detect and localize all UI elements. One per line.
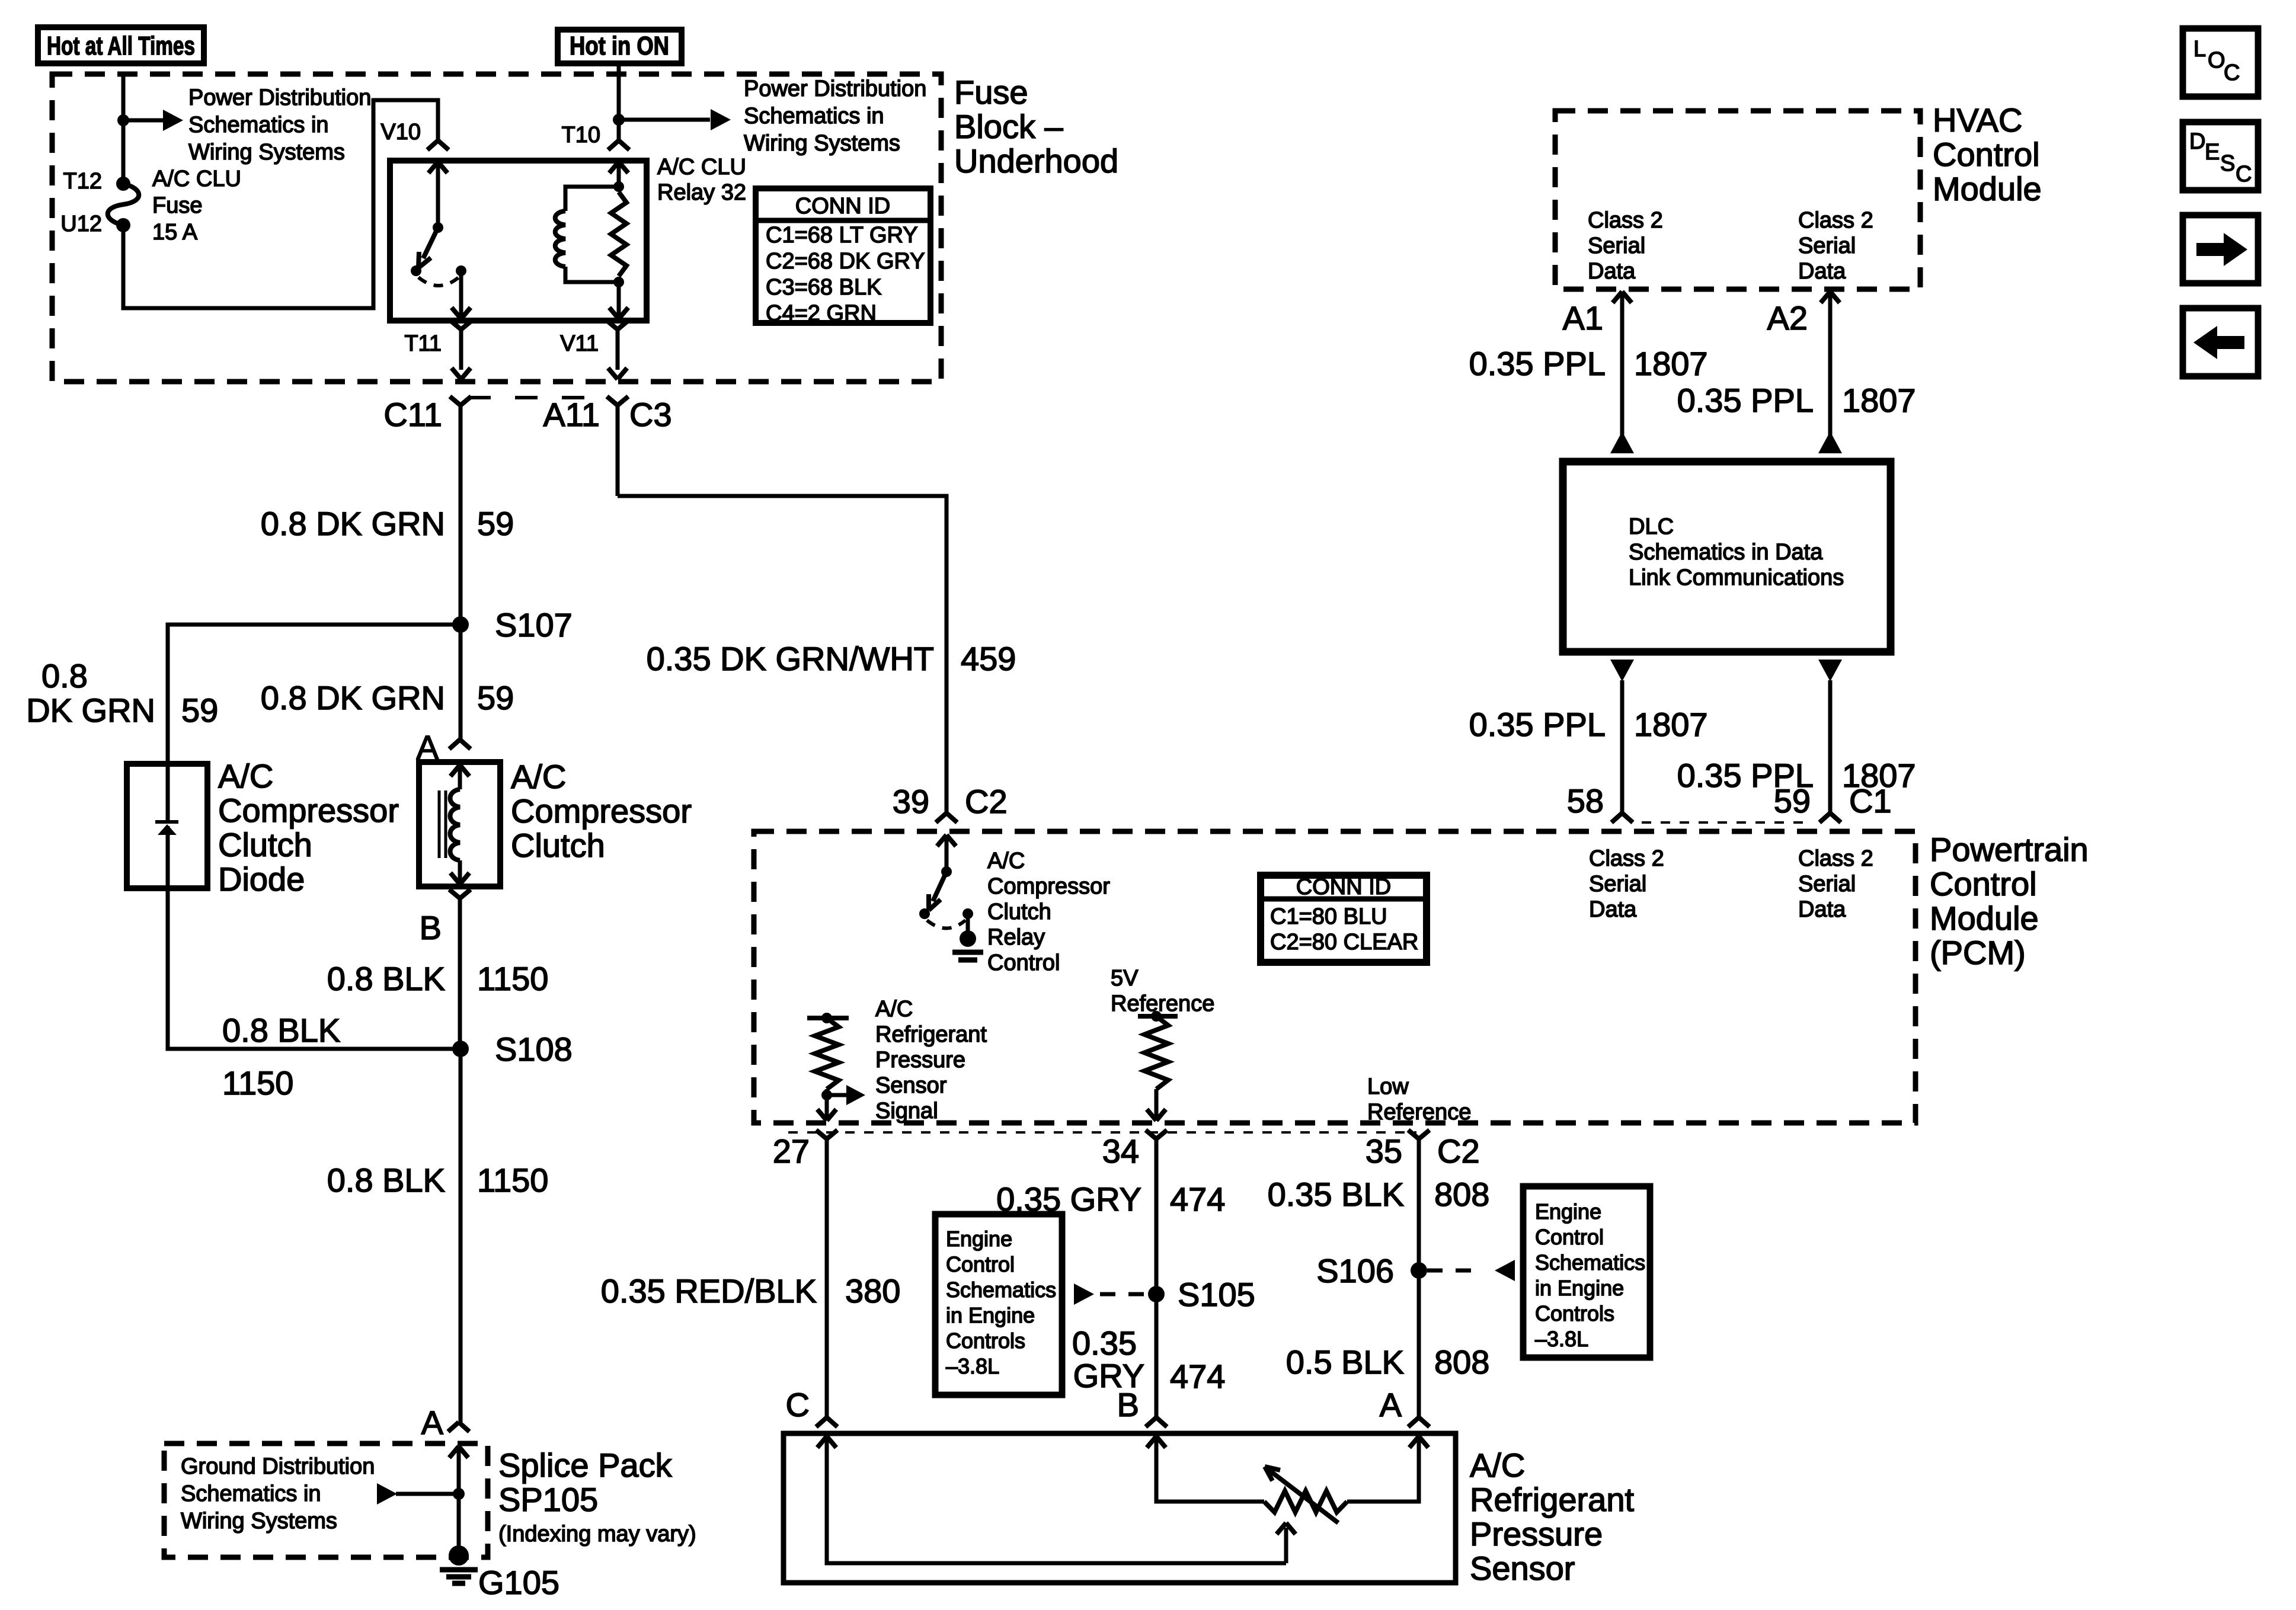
- svg-text:C3: C3: [629, 396, 672, 433]
- svg-text:Schematics in Data: Schematics in Data: [1629, 540, 1823, 565]
- svg-text:Clutch: Clutch: [218, 826, 312, 863]
- svg-text:CONN ID: CONN ID: [1296, 875, 1391, 900]
- svg-text:DLC: DLC: [1629, 514, 1674, 539]
- svg-text:–3.8L: –3.8L: [1535, 1327, 1588, 1351]
- svg-text:A/C CLU: A/C CLU: [152, 167, 241, 191]
- svg-text:C11: C11: [383, 396, 442, 433]
- svg-text:HVAC: HVAC: [1933, 101, 2022, 139]
- svg-text:Module: Module: [1930, 900, 2039, 937]
- svg-text:T11: T11: [404, 331, 442, 356]
- svg-text:A/C: A/C: [511, 758, 566, 795]
- svg-text:1807: 1807: [1634, 345, 1708, 382]
- svg-text:A11: A11: [543, 396, 600, 433]
- svg-text:Schematics: Schematics: [946, 1278, 1056, 1302]
- svg-text:C1=80 BLU: C1=80 BLU: [1270, 904, 1387, 929]
- svg-text:Wiring Systems: Wiring Systems: [181, 1509, 337, 1534]
- svg-text:39: 39: [893, 783, 929, 820]
- svg-text:0.35 PPL: 0.35 PPL: [1469, 706, 1606, 743]
- svg-text:C2=80 CLEAR: C2=80 CLEAR: [1270, 930, 1418, 955]
- svg-text:Clutch: Clutch: [511, 827, 605, 864]
- svg-text:C: C: [2224, 60, 2240, 85]
- svg-text:1150: 1150: [477, 960, 548, 997]
- svg-text:A/C: A/C: [1470, 1446, 1525, 1484]
- svg-text:1150: 1150: [222, 1064, 293, 1102]
- svg-text:0.35 BLK: 0.35 BLK: [1268, 1176, 1404, 1213]
- svg-text:Schematics in: Schematics in: [744, 104, 884, 129]
- svg-text:A2: A2: [1767, 299, 1808, 337]
- svg-text:Control: Control: [1930, 865, 2037, 902]
- svg-text:1150: 1150: [477, 1161, 548, 1199]
- svg-text:Pressure: Pressure: [1470, 1515, 1603, 1553]
- svg-text:Fuse: Fuse: [954, 73, 1028, 111]
- svg-text:Control: Control: [946, 1252, 1015, 1276]
- svg-text:B: B: [420, 909, 442, 946]
- svg-text:0.35 DK GRN/WHT: 0.35 DK GRN/WHT: [647, 640, 934, 677]
- svg-text:Schematics in: Schematics in: [181, 1481, 321, 1506]
- svg-text:59: 59: [477, 679, 514, 716]
- svg-text:Fuse: Fuse: [152, 193, 202, 218]
- svg-text:Reference: Reference: [1111, 991, 1214, 1016]
- svg-text:Class 2: Class 2: [1798, 846, 1873, 871]
- svg-text:Class 2: Class 2: [1588, 208, 1663, 233]
- svg-text:Engine: Engine: [946, 1227, 1012, 1251]
- svg-text:S108: S108: [495, 1030, 573, 1068]
- svg-text:1807: 1807: [1842, 382, 1916, 419]
- svg-text:Diode: Diode: [218, 860, 305, 898]
- svg-text:U12: U12: [60, 212, 102, 236]
- svg-text:0.35: 0.35: [1072, 1324, 1137, 1362]
- svg-text:0.35 PPL: 0.35 PPL: [1677, 382, 1814, 419]
- svg-text:35: 35: [1366, 1132, 1402, 1170]
- svg-text:1807: 1807: [1634, 706, 1708, 743]
- svg-text:Clutch: Clutch: [987, 900, 1051, 924]
- svg-text:Class 2: Class 2: [1798, 208, 1873, 233]
- svg-text:A/C: A/C: [987, 849, 1025, 873]
- svg-text:Relay: Relay: [987, 925, 1045, 950]
- svg-text:Relay 32: Relay 32: [657, 180, 746, 205]
- svg-text:DK GRN: DK GRN: [26, 692, 155, 729]
- svg-text:SP105: SP105: [498, 1481, 598, 1518]
- svg-text:C: C: [2236, 162, 2252, 187]
- svg-text:(PCM): (PCM): [1930, 934, 2026, 971]
- svg-text:T10: T10: [562, 123, 600, 148]
- svg-text:380: 380: [845, 1272, 900, 1310]
- svg-text:27: 27: [773, 1132, 810, 1170]
- svg-text:Control: Control: [1933, 136, 2040, 173]
- svg-text:Power Distribution: Power Distribution: [744, 76, 926, 101]
- svg-text:Wiring Systems: Wiring Systems: [744, 131, 900, 156]
- svg-text:Compressor: Compressor: [511, 792, 692, 830]
- svg-text:59: 59: [181, 692, 218, 729]
- svg-text:59: 59: [477, 505, 514, 542]
- svg-text:808: 808: [1434, 1343, 1489, 1381]
- svg-text:0.8: 0.8: [41, 657, 88, 694]
- svg-text:Ground Distribution: Ground Distribution: [181, 1454, 375, 1479]
- svg-text:C2: C2: [1437, 1132, 1480, 1170]
- svg-text:G105: G105: [478, 1564, 559, 1601]
- svg-text:Schematics in: Schematics in: [188, 113, 329, 137]
- svg-text:Data: Data: [1588, 259, 1636, 284]
- svg-text:Serial: Serial: [1798, 233, 1856, 258]
- svg-text:Data: Data: [1798, 259, 1846, 284]
- svg-text:0.8 BLK: 0.8 BLK: [327, 1161, 445, 1199]
- svg-text:Controls: Controls: [946, 1329, 1025, 1353]
- svg-text:Class 2: Class 2: [1589, 846, 1664, 871]
- svg-text:Underhood: Underhood: [954, 142, 1118, 180]
- svg-text:Serial: Serial: [1588, 233, 1645, 258]
- svg-text:V10: V10: [380, 120, 421, 145]
- svg-text:Block –: Block –: [954, 108, 1063, 145]
- svg-text:O: O: [2208, 48, 2225, 73]
- svg-text:T12: T12: [63, 169, 102, 194]
- svg-text:0.5 BLK: 0.5 BLK: [1286, 1343, 1404, 1381]
- svg-text:A: A: [1380, 1386, 1402, 1423]
- svg-text:in Engine: in Engine: [1535, 1276, 1624, 1300]
- svg-text:Power Distribution: Power Distribution: [188, 85, 371, 110]
- svg-text:Pressure: Pressure: [875, 1048, 965, 1073]
- svg-text:A/C: A/C: [875, 997, 913, 1022]
- svg-text:C2=68 DK GRY: C2=68 DK GRY: [766, 249, 925, 274]
- svg-text:C2: C2: [965, 783, 1008, 820]
- svg-text:459: 459: [961, 640, 1016, 677]
- svg-text:474: 474: [1170, 1358, 1225, 1395]
- svg-text:Compressor: Compressor: [987, 874, 1110, 899]
- svg-text:C1=68 LT GRY: C1=68 LT GRY: [766, 223, 918, 248]
- svg-text:Wiring Systems: Wiring Systems: [188, 140, 345, 165]
- svg-text:0.8 DK GRN: 0.8 DK GRN: [261, 679, 445, 716]
- svg-text:S105: S105: [1178, 1276, 1255, 1313]
- svg-text:Serial: Serial: [1589, 872, 1646, 897]
- svg-text:in Engine: in Engine: [946, 1303, 1035, 1327]
- svg-text:C1: C1: [1849, 782, 1892, 820]
- svg-text:Signal: Signal: [875, 1099, 938, 1124]
- svg-text:S106: S106: [1316, 1252, 1394, 1289]
- svg-text:E: E: [2205, 140, 2220, 165]
- svg-text:Reference: Reference: [1367, 1100, 1471, 1125]
- svg-text:Link Communications: Link Communications: [1629, 565, 1844, 590]
- svg-text:A1: A1: [1563, 299, 1604, 337]
- svg-text:0.35 PPL: 0.35 PPL: [1469, 345, 1606, 382]
- svg-text:0.8 BLK: 0.8 BLK: [222, 1012, 340, 1049]
- svg-text:Refrigerant: Refrigerant: [1470, 1481, 1634, 1518]
- svg-text:(Indexing may vary): (Indexing may vary): [498, 1522, 696, 1547]
- svg-text:15 A: 15 A: [152, 220, 198, 245]
- svg-text:34: 34: [1102, 1132, 1139, 1170]
- svg-text:0.8 DK GRN: 0.8 DK GRN: [261, 505, 445, 542]
- svg-text:Control: Control: [987, 950, 1060, 975]
- svg-text:Refrigerant: Refrigerant: [875, 1022, 987, 1047]
- svg-text:808: 808: [1434, 1176, 1489, 1213]
- svg-text:V11: V11: [560, 331, 599, 356]
- svg-text:Sensor: Sensor: [1470, 1550, 1575, 1587]
- svg-text:Powertrain: Powertrain: [1930, 831, 2089, 868]
- svg-text:Controls: Controls: [1535, 1301, 1614, 1326]
- svg-text:Hot in ON: Hot in ON: [570, 31, 669, 60]
- svg-text:Hot at All Times: Hot at All Times: [47, 31, 195, 60]
- svg-text:S: S: [2220, 151, 2235, 176]
- svg-text:0.8 BLK: 0.8 BLK: [327, 960, 445, 997]
- svg-text:Sensor: Sensor: [875, 1073, 947, 1098]
- svg-text:Engine: Engine: [1535, 1199, 1601, 1224]
- svg-text:–3.8L: –3.8L: [946, 1354, 999, 1378]
- svg-text:D: D: [2189, 129, 2205, 154]
- svg-text:0.35 RED/BLK: 0.35 RED/BLK: [601, 1272, 817, 1310]
- svg-text:C4=2 GRN: C4=2 GRN: [766, 301, 877, 326]
- svg-text:L: L: [2193, 37, 2206, 62]
- svg-text:Compressor: Compressor: [218, 792, 399, 829]
- svg-text:A/C CLU: A/C CLU: [657, 155, 746, 180]
- svg-text:Low: Low: [1367, 1074, 1409, 1099]
- svg-text:5V: 5V: [1111, 966, 1139, 991]
- svg-text:Data: Data: [1798, 897, 1846, 922]
- svg-text:Control: Control: [1535, 1225, 1604, 1249]
- svg-text:B: B: [1117, 1386, 1139, 1423]
- svg-text:S107: S107: [495, 606, 573, 644]
- svg-text:CONN ID: CONN ID: [795, 194, 890, 219]
- svg-text:Module: Module: [1933, 170, 2042, 207]
- svg-text:C: C: [786, 1386, 810, 1423]
- svg-text:Schematics: Schematics: [1535, 1250, 1645, 1275]
- svg-text:Splice Pack: Splice Pack: [498, 1446, 673, 1484]
- svg-text:58: 58: [1567, 782, 1604, 820]
- svg-text:Data: Data: [1589, 897, 1637, 922]
- svg-text:59: 59: [1774, 782, 1811, 820]
- svg-text:A: A: [421, 1404, 444, 1441]
- svg-text:A/C: A/C: [218, 757, 273, 795]
- svg-text:474: 474: [1170, 1180, 1225, 1218]
- svg-text:Serial: Serial: [1798, 872, 1856, 897]
- svg-text:C3=68 BLK: C3=68 BLK: [766, 275, 881, 300]
